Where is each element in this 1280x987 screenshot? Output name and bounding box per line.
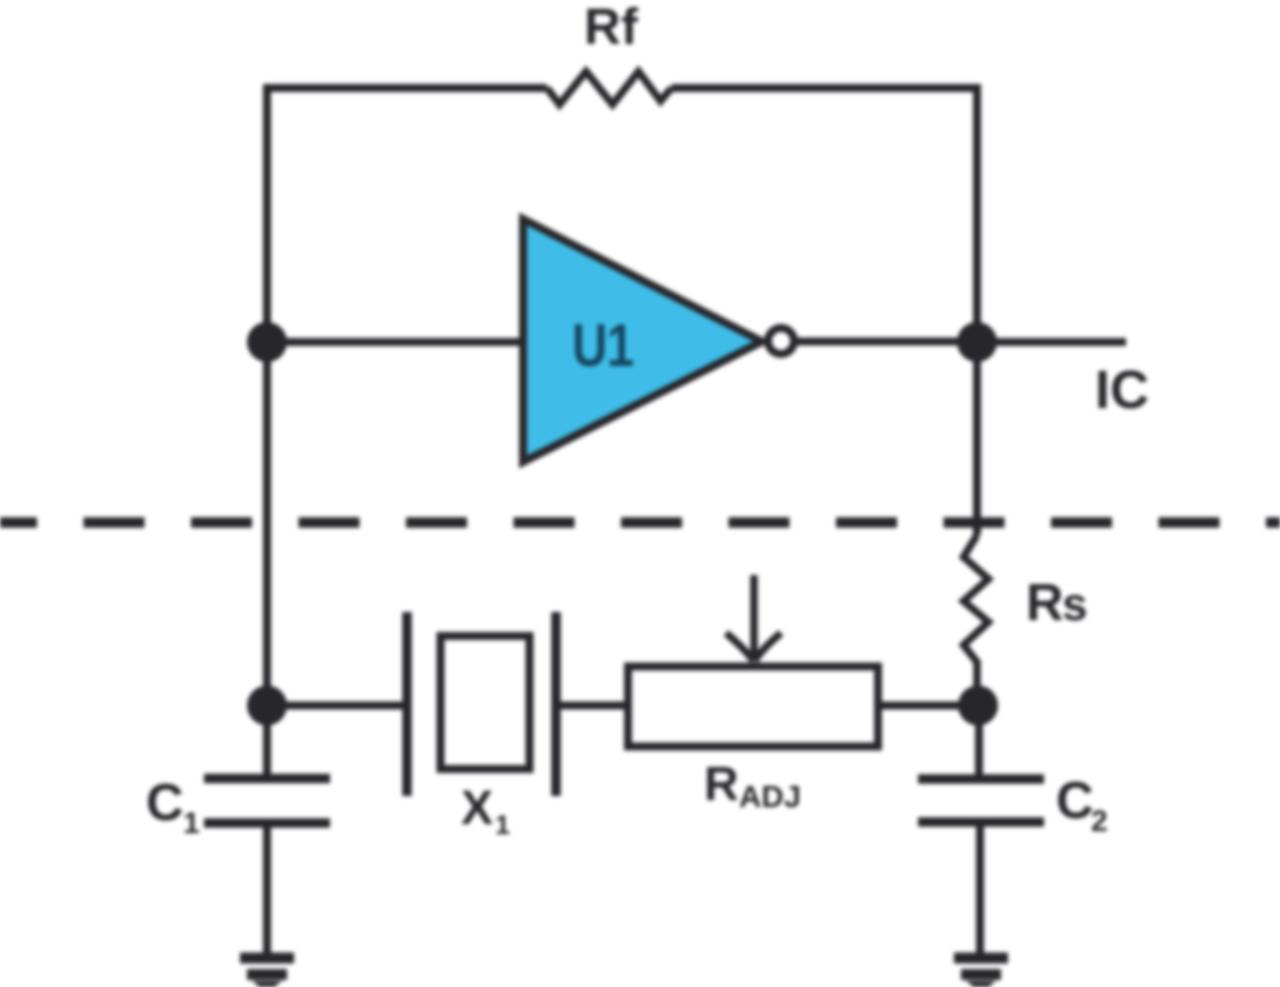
crystal X1 right electrode xyxy=(551,612,561,796)
wire C2 to ground xyxy=(976,826,984,953)
svg-text:2: 2 xyxy=(1091,805,1108,838)
wire top-right feedback xyxy=(672,84,982,92)
wire C1 to ground xyxy=(263,827,271,953)
wire node to crystal xyxy=(267,702,407,710)
node input (left upper junction) xyxy=(247,322,287,362)
potentiometer Radj wiper arrow xyxy=(726,575,781,661)
node output (right upper junction) xyxy=(957,322,997,362)
svg-text:R: R xyxy=(704,758,739,811)
svg-text:U1: U1 xyxy=(572,311,633,379)
svg-text:IC: IC xyxy=(1095,360,1149,420)
resistor Rf xyxy=(547,72,672,105)
resistor Rs xyxy=(964,535,989,706)
crystal X1 body xyxy=(441,636,530,769)
svg-text:f: f xyxy=(621,0,639,55)
wire crystal to Radj xyxy=(556,702,628,710)
wire inverter input xyxy=(267,338,523,346)
op-amp U1 inverter triangle xyxy=(523,219,762,462)
node XTAL left (left lower junction) xyxy=(247,686,287,726)
svg-text:1: 1 xyxy=(495,810,510,840)
ground right xyxy=(954,958,1008,975)
svg-text:R: R xyxy=(584,0,621,55)
wire inverter output xyxy=(795,338,977,346)
svg-text:s: s xyxy=(1062,578,1088,630)
ground left xyxy=(240,958,294,975)
node XTAL right (right lower junction) xyxy=(958,686,998,726)
wire node to C1 xyxy=(263,706,271,775)
wire Radj to node xyxy=(878,702,978,710)
capacitor C2 xyxy=(918,779,1044,822)
potentiometer Radj body xyxy=(628,667,878,747)
svg-text:C: C xyxy=(1056,772,1094,830)
svg-text:1: 1 xyxy=(183,807,200,840)
inversion bubble U1 output xyxy=(768,328,794,354)
svg-text:C: C xyxy=(146,774,184,832)
capacitor C1 xyxy=(204,779,330,824)
svg-text:R: R xyxy=(1026,574,1064,632)
svg-text:X: X xyxy=(461,782,493,835)
wire right rail upper xyxy=(973,84,981,535)
svg-text:ADJ: ADJ xyxy=(739,779,801,814)
dashed IC boundary line xyxy=(0,517,1280,528)
wire left rail xyxy=(263,84,271,706)
wire IC stub xyxy=(977,338,1126,346)
crystal X1 left electrode xyxy=(402,612,412,796)
wire node to C2 xyxy=(975,706,983,776)
wire top-left feedback xyxy=(263,84,547,92)
